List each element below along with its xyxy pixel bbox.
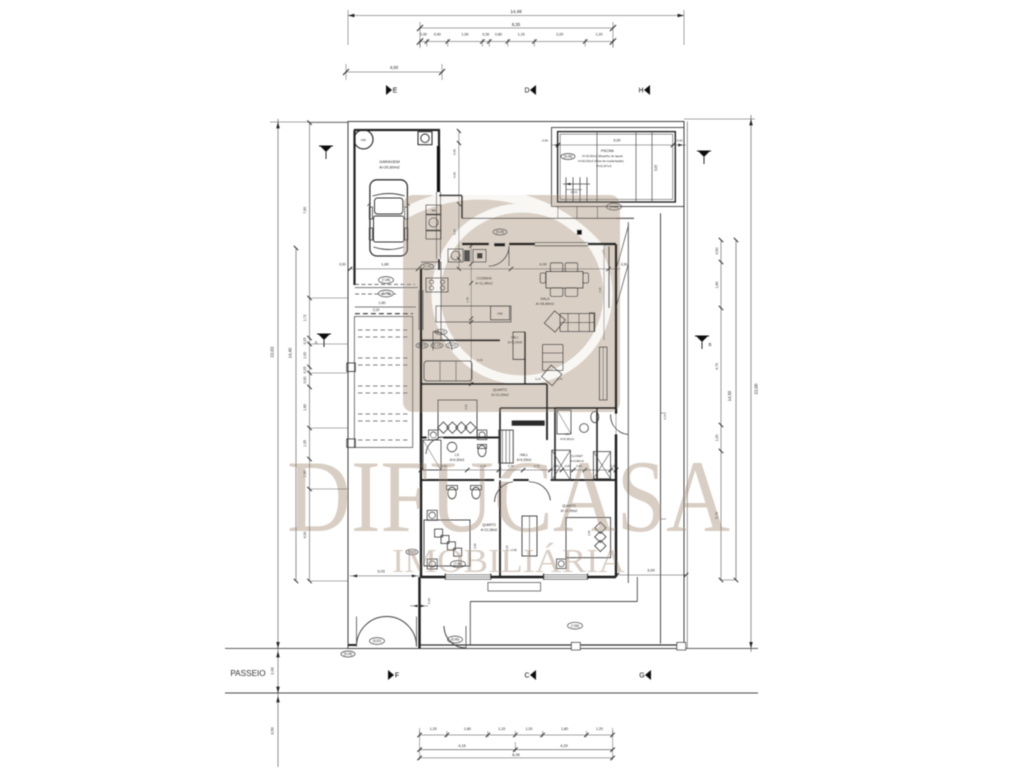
svg-text:A=5,10m2: A=5,10m2 (508, 341, 523, 345)
svg-text:0,30: 0,30 (621, 263, 627, 267)
svg-text:A=13,20m2: A=13,20m2 (491, 393, 509, 397)
svg-text:H: H (638, 88, 643, 95)
svg-text:(0,15): (0,15) (418, 344, 426, 348)
svg-text:0,30: 0,30 (339, 263, 345, 267)
svg-text:0,80: 0,80 (495, 33, 502, 37)
svg-text:2,20: 2,20 (556, 33, 563, 37)
svg-text:0,60: 0,60 (303, 377, 307, 384)
svg-text:E: E (393, 88, 398, 95)
svg-text:2,26: 2,26 (508, 464, 514, 468)
svg-text:14,48: 14,48 (510, 9, 522, 14)
svg-text:3,00: 3,00 (647, 569, 654, 573)
svg-text:0,55: 0,55 (453, 149, 457, 155)
svg-text:G: G (639, 673, 644, 680)
svg-text:QUARTO: QUARTO (493, 388, 508, 392)
svg-text:1,80: 1,80 (303, 404, 307, 411)
svg-text:4,00: 4,00 (539, 263, 546, 267)
svg-text:COZINHA: COZINHA (476, 277, 492, 281)
svg-text:0,95: 0,95 (453, 172, 457, 178)
svg-text:(2,40): (2,40) (448, 344, 456, 348)
svg-text:0,60: 0,60 (553, 464, 559, 468)
svg-text:(5,28): (5,28) (344, 652, 352, 656)
svg-text:A=20,03m2 (Área de implantação: A=20,03m2 (Área de implantação) (578, 159, 624, 163)
svg-text:1,20: 1,20 (525, 727, 532, 731)
svg-text:1,15: 1,15 (498, 727, 505, 731)
svg-text:0,30: 0,30 (677, 139, 683, 143)
svg-text:1,05: 1,05 (505, 545, 509, 551)
svg-text:8,35: 8,35 (512, 22, 521, 27)
svg-text:0,60: 0,60 (715, 248, 719, 255)
svg-text:4,15: 4,15 (458, 744, 465, 748)
svg-text:1,15: 1,15 (518, 33, 525, 37)
svg-text:(7,46): (7,46) (382, 278, 390, 282)
svg-text:GARAGEM: GARAGEM (379, 159, 399, 164)
svg-text:1,20: 1,20 (715, 435, 719, 442)
svg-text:0,30: 0,30 (427, 598, 431, 604)
svg-text:1,20: 1,20 (430, 727, 437, 731)
svg-text:PASSEIO: PASSEIO (230, 669, 265, 678)
svg-text:4,20: 4,20 (560, 744, 567, 748)
svg-text:(0,15): (0,15) (408, 550, 416, 554)
svg-text:(0,10): (0,10) (571, 190, 578, 194)
svg-text:1,60: 1,60 (379, 301, 386, 305)
svg-text:F: F (395, 673, 399, 680)
svg-text:QUARTO: QUARTO (482, 523, 496, 527)
svg-text:0,25: 0,25 (303, 367, 307, 374)
svg-text:2,35: 2,35 (453, 229, 457, 235)
svg-text:(0,15): (0,15) (433, 344, 441, 348)
svg-text:0,90: 0,90 (434, 33, 441, 37)
svg-text:B: B (709, 342, 712, 347)
svg-text:A=4,30m2: A=4,30m2 (450, 458, 465, 462)
svg-text:1,80: 1,80 (381, 263, 388, 267)
svg-text:C: C (524, 673, 529, 680)
svg-text:1,80: 1,80 (464, 727, 471, 731)
svg-text:CLOSET: CLOSET (571, 454, 583, 458)
svg-text:2,00: 2,00 (271, 667, 275, 674)
svg-text:0,30: 0,30 (542, 139, 548, 143)
svg-text:888: 888 (431, 209, 436, 213)
svg-text:A=12,90m2: A=12,90m2 (561, 509, 578, 513)
svg-text:1,72: 1,72 (303, 315, 307, 322)
svg-text:1,80: 1,80 (561, 727, 568, 731)
svg-text:0,60: 0,60 (576, 464, 582, 468)
svg-text:0,30: 0,30 (482, 33, 489, 37)
svg-text:PISCINA: PISCINA (601, 149, 615, 153)
svg-text:0,45: 0,45 (511, 548, 517, 552)
svg-text:1,20: 1,20 (596, 33, 603, 37)
svg-text:1,50: 1,50 (462, 33, 469, 37)
svg-text:0,60: 0,60 (565, 464, 571, 468)
svg-text:8,35: 8,35 (512, 753, 519, 757)
svg-text:FRI: FRI (497, 312, 502, 316)
svg-text:A=4,25m2: A=4,25m2 (517, 458, 532, 462)
svg-text:HALL: HALL (520, 453, 528, 457)
svg-text:(5,52): (5,52) (373, 639, 381, 643)
svg-text:(5,46): (5,46) (451, 638, 459, 642)
svg-text:1,20: 1,20 (596, 727, 603, 731)
svg-text:(5,10): (5,10) (437, 330, 445, 334)
svg-text:A=3,85m2: A=3,85m2 (570, 459, 584, 463)
svg-text:V=21,87m3: V=21,87m3 (596, 164, 612, 168)
svg-text:0,15: 0,15 (477, 358, 483, 362)
svg-text:A=20,60m2: A=20,60m2 (379, 165, 400, 170)
svg-text:HALL: HALL (511, 336, 519, 340)
svg-text:4,75: 4,75 (663, 414, 667, 420)
svg-text:0,30: 0,30 (420, 33, 427, 37)
svg-text:LS: LS (455, 453, 459, 457)
svg-text:22,02: 22,02 (270, 346, 275, 358)
svg-text:4,75: 4,75 (715, 363, 719, 370)
svg-text:A: A (315, 340, 318, 345)
svg-text:QUARTO: QUARTO (562, 504, 576, 508)
svg-text:HID: HID (361, 138, 367, 142)
svg-text:5,15: 5,15 (535, 377, 541, 381)
svg-text:(5,08): (5,08) (496, 230, 504, 234)
svg-text:14,50: 14,50 (727, 390, 732, 401)
svg-text:5,75: 5,75 (715, 512, 719, 519)
svg-text:(7,56): (7,56) (571, 624, 579, 628)
svg-text:3,00: 3,00 (464, 404, 468, 410)
svg-text:14,40: 14,40 (288, 347, 293, 358)
svg-text:A=36,89m2: A=36,89m2 (536, 302, 554, 306)
svg-text:A=11,45m2: A=11,45m2 (475, 282, 492, 286)
svg-text:3,50: 3,50 (271, 727, 275, 734)
svg-text:3,15: 3,15 (480, 464, 486, 468)
svg-text:0,25: 0,25 (303, 338, 307, 345)
svg-text:1,00: 1,00 (303, 352, 307, 359)
svg-text:1,45: 1,45 (466, 297, 470, 303)
svg-text:3,20: 3,20 (598, 287, 602, 293)
svg-text:DIFUCASA: DIFUCASA (287, 440, 730, 554)
svg-text:3,60: 3,60 (587, 530, 591, 536)
svg-text:1,80: 1,80 (715, 282, 719, 289)
svg-text:0,75: 0,75 (534, 464, 540, 468)
svg-text:4,00: 4,00 (303, 532, 307, 539)
svg-text:A=5,30m2: A=5,30m2 (560, 437, 574, 441)
svg-text:4,00: 4,00 (390, 65, 399, 70)
svg-text:2,95: 2,95 (441, 464, 447, 468)
svg-text:3,03: 3,03 (377, 570, 384, 574)
svg-text:1,30: 1,30 (303, 471, 307, 478)
svg-text:5,00: 5,00 (614, 139, 621, 143)
svg-text:0,30: 0,30 (610, 464, 616, 468)
svg-text:(7,56): (7,56) (610, 205, 618, 209)
svg-text:3,95: 3,95 (473, 543, 477, 549)
svg-text:SALA: SALA (540, 297, 550, 301)
svg-text:A=12,18m2: A=12,18m2 (481, 528, 498, 532)
svg-text:1,35: 1,35 (303, 440, 307, 447)
svg-text:3,05: 3,05 (654, 165, 658, 171)
svg-text:(5,08): (5,08) (564, 155, 572, 159)
svg-text:A=15,00m2 (Espelho de água): A=15,00m2 (Espelho de água) (582, 154, 623, 158)
svg-text:2,19: 2,19 (373, 308, 380, 312)
svg-text:(0,15): (0,15) (423, 265, 431, 269)
svg-text:3,47: 3,47 (557, 377, 563, 381)
svg-text:D: D (524, 88, 529, 95)
svg-text:22,00: 22,00 (754, 383, 759, 395)
svg-text:7,60: 7,60 (303, 207, 307, 214)
